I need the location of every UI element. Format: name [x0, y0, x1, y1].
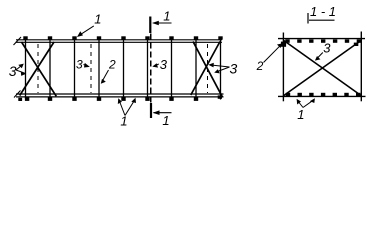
post P7: [171, 40, 173, 97]
section bottom plank line: [278, 95, 366, 97]
section nail squares over bottom plank: [286, 93, 290, 96]
svg-text:1: 1: [162, 113, 169, 128]
post P1: [25, 40, 27, 99]
section mark top stroke: [149, 17, 151, 34]
post P5: [123, 40, 125, 97]
label 1 section V leader: [298, 100, 314, 108]
svg-text:3: 3: [230, 61, 238, 77]
left X brace diagonal A: [22, 42, 57, 96]
extra corner block top-right: [354, 43, 359, 46]
top chord lower line: [16, 41, 223, 43]
svg-text:3: 3: [9, 63, 17, 79]
label 3 mid leader: [84, 65, 89, 67]
label 2 section leader: [264, 45, 282, 63]
svg-text:1: 1: [120, 113, 127, 128]
section X diagonal B: [284, 41, 361, 96]
post P3: [74, 40, 76, 97]
section mark bottom stroke: [150, 103, 152, 118]
label 3 right leaders: [210, 65, 230, 72]
section left post: [282, 33, 284, 102]
label 3 left leaders: [16, 65, 25, 74]
nail plate squares top chord: [23, 36, 27, 39]
svg-text:1: 1: [94, 12, 101, 27]
section mark bottom arrow shaft: [154, 112, 172, 114]
right X brace diagonal A: [193, 42, 222, 97]
dashed centerline at brace 3 (mid): [90, 44, 92, 93]
svg-text:1 - 1: 1 - 1: [310, 4, 336, 19]
svg-text:3: 3: [323, 41, 331, 56]
bottom chord lower line: [16, 96, 224, 98]
section nail squares under top plank: [285, 39, 289, 42]
left end break slash top chord: [14, 37, 22, 45]
section title tick: [307, 13, 309, 24]
section title underline: [308, 13, 335, 24]
section top plank line: [278, 38, 365, 40]
post P8: [195, 40, 197, 100]
section X diagonal A: [284, 41, 361, 96]
dashed centerline left X panel: [37, 44, 39, 93]
dashed centerline right X panel: [207, 44, 209, 93]
nail plate squares bottom chord: [18, 98, 22, 101]
section line 1-1 dash-dot: [150, 34, 152, 104]
label 2 mid leader: [102, 70, 109, 82]
svg-text:2: 2: [256, 59, 264, 73]
post P4: [98, 40, 100, 97]
bottom chord upper line: [16, 93, 224, 95]
post P6: [147, 40, 149, 97]
post P9: [220, 40, 222, 100]
label 1 top leader: [79, 26, 94, 36]
svg-text:3: 3: [76, 58, 83, 72]
label 1 bottom V leader: [119, 100, 135, 116]
section mark top arrowhead: [152, 21, 159, 26]
svg-text:1: 1: [297, 107, 304, 122]
svg-text:3: 3: [160, 57, 168, 72]
svg-text:1: 1: [163, 9, 170, 24]
svg-text:2: 2: [108, 57, 116, 71]
right X brace diagonal B: [191, 42, 220, 96]
corner blob top-left: [281, 42, 286, 47]
section mark top arrow shaft: [153, 22, 172, 24]
left X brace diagonal B: [20, 42, 54, 96]
section right post: [360, 32, 362, 102]
post P2: [49, 40, 51, 97]
top chord upper line: [16, 39, 222, 41]
section mark bottom arrowhead: [153, 110, 160, 115]
left end break slash bottom chord: [14, 91, 21, 98]
label 3 mid2 leader: [154, 64, 159, 66]
label 3 section leader: [317, 53, 323, 60]
